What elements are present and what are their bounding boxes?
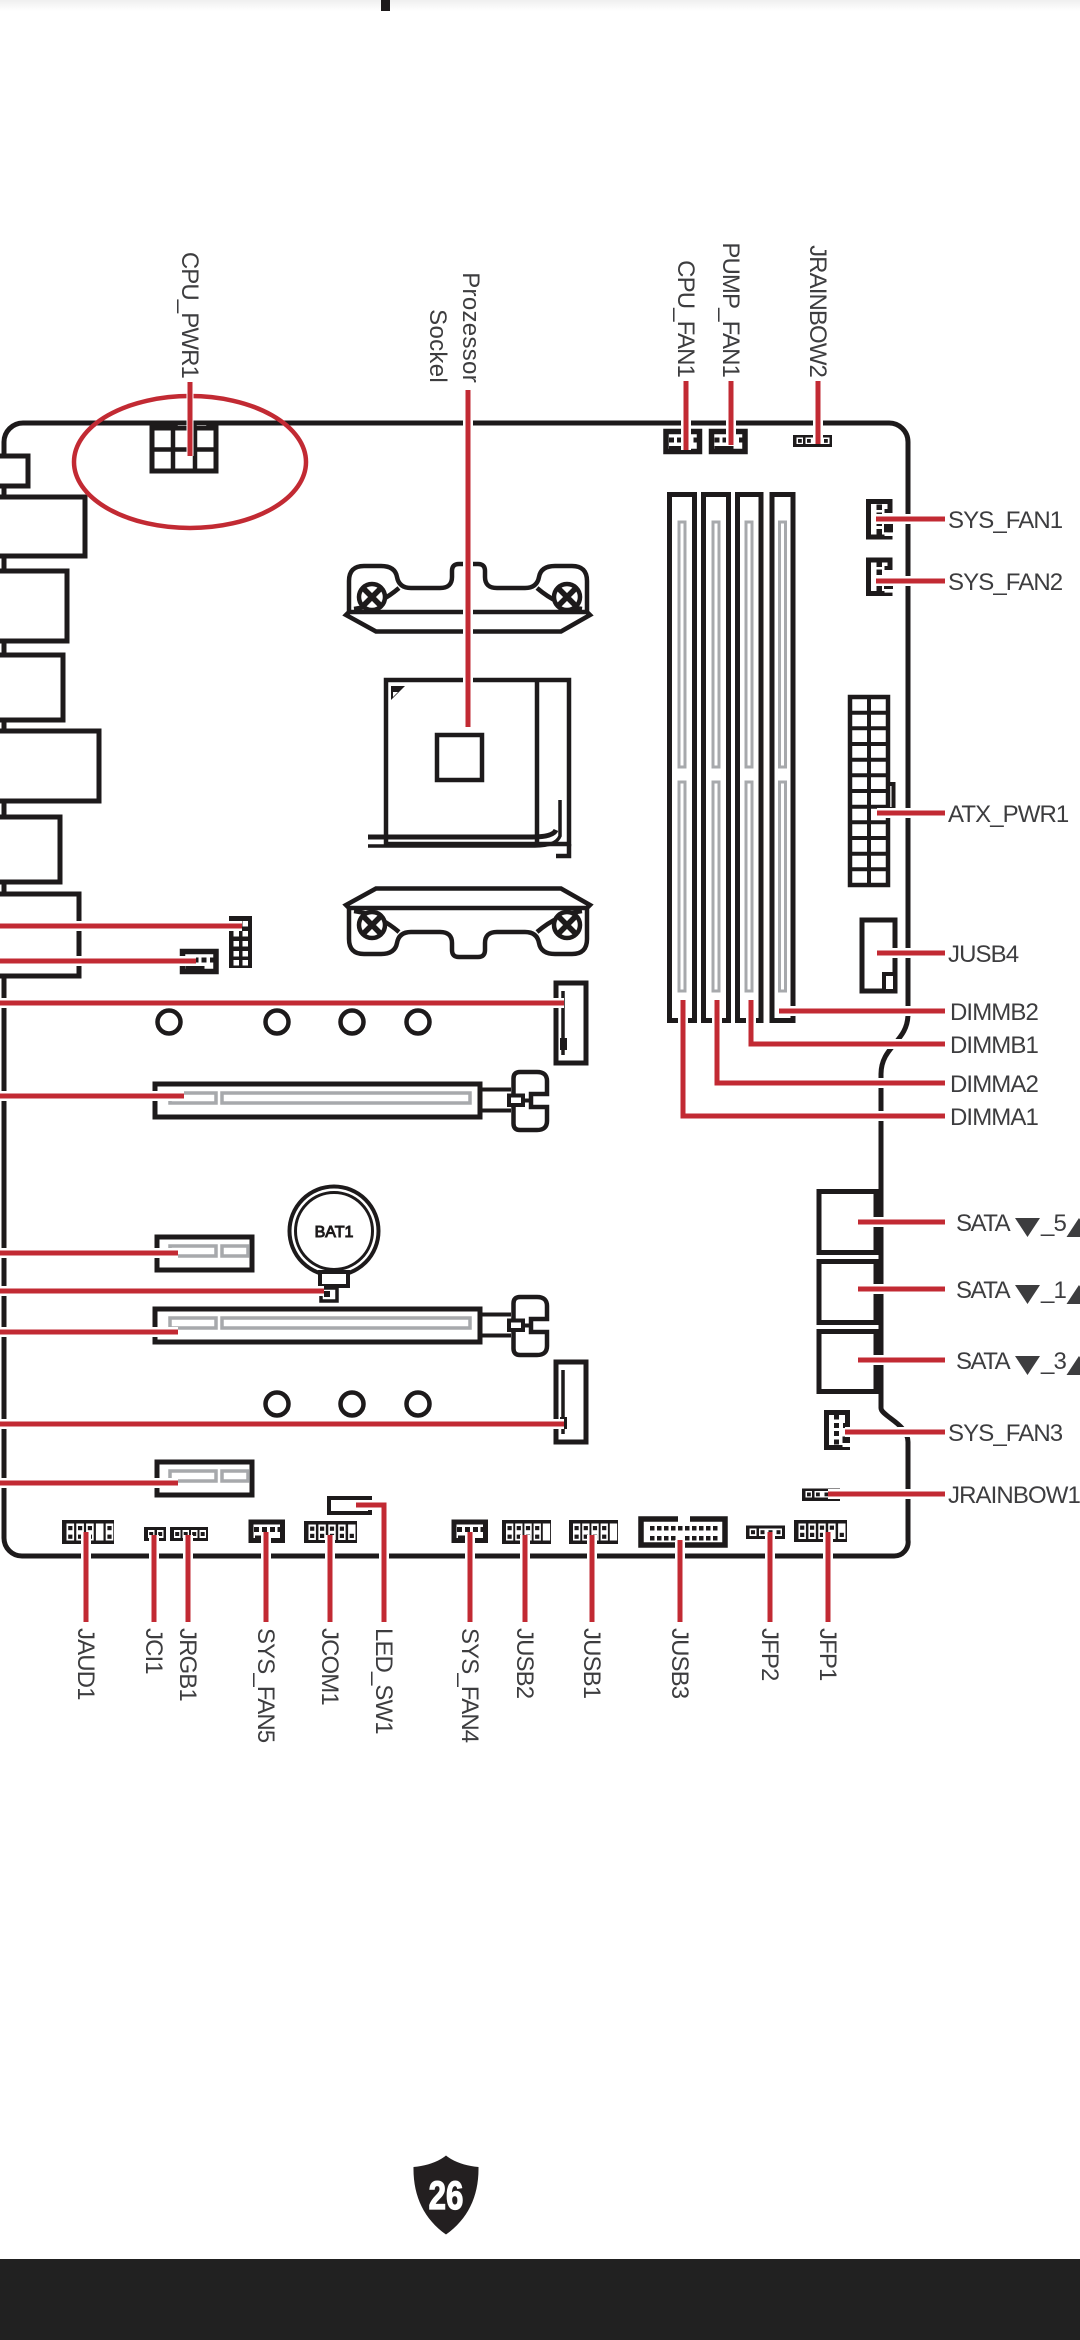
svg-text:Sockel: Sockel: [424, 309, 451, 383]
connector SYS_FAN5: [251, 1522, 283, 1541]
leader line JRAINBOW1: [828, 1492, 945, 1497]
header JFP2: [746, 1526, 785, 1540]
svg-text:JUSB3: JUSB3: [666, 1628, 693, 1699]
slot PCI_E1 x16: [155, 1072, 547, 1130]
svg-text:JRAINBOW2: JRAINBOW2: [804, 245, 831, 377]
svg-text:DIMMB1: DIMMB1: [950, 1032, 1038, 1059]
connector JRGB1: [170, 1527, 208, 1541]
svg-text:JCOM1: JCOM1: [316, 1628, 343, 1705]
leader line SYS_FAN4: [468, 1532, 473, 1622]
leader line JFP1: [826, 1532, 831, 1622]
header JCOM1: [304, 1521, 357, 1543]
leader line JAUD1: [84, 1532, 89, 1622]
slot PCI_E3 x16: [155, 1297, 547, 1355]
leader line SYS_FAN5: [264, 1532, 269, 1622]
leader line M2_1: [0, 1001, 564, 1006]
connector ATX_PWR1: [850, 697, 894, 885]
connector SYS_FAN1: [869, 502, 896, 538]
svg-text:ATX_PWR1: ATX_PWR1: [948, 801, 1069, 828]
svg-text:JFP2: JFP2: [756, 1628, 783, 1681]
svg-text:JUSB1: JUSB1: [578, 1628, 605, 1699]
leader line JUSB3: [678, 1540, 683, 1622]
leader line LED_SW1: [356, 1505, 384, 1622]
header JTPM1: [229, 916, 252, 968]
leader line Prozessor Sockel: [466, 390, 471, 727]
connector SYS_FAN3: [827, 1413, 853, 1448]
leader line CPU_PWR1: [188, 382, 193, 456]
header JUSB2: [502, 1520, 551, 1544]
leader line M2_2: [0, 1422, 564, 1427]
page number shield: [413, 2156, 478, 2235]
leader line SATA 5/6: [858, 1220, 945, 1225]
M.2 standoff holes row 1: [158, 1011, 430, 1034]
io port 6: [0, 817, 60, 882]
svg-text:CPU_FAN1: CPU_FAN1: [672, 260, 699, 377]
leader line white casings (underlay): [0, 381, 945, 1622]
svg-text:BAT1: BAT1: [315, 1224, 354, 1241]
svg-text:26: 26: [429, 2173, 464, 2218]
connector PUMP_FAN2: [183, 952, 217, 973]
latch PCI_E3: [480, 1297, 547, 1355]
svg-text:DIMMB2: DIMMB2: [950, 999, 1038, 1026]
DIMM slot DIMMA1: [670, 495, 695, 1021]
leader line DIMMB2: [779, 1009, 945, 1014]
jumper JBAT1: [321, 1288, 337, 1301]
svg-text:DIMMA2: DIMMA2: [950, 1071, 1038, 1098]
header JUSB3: [641, 1519, 725, 1545]
svg-text:JUSB4: JUSB4: [948, 941, 1019, 968]
DIMM slot DIMMA2: [704, 495, 729, 1021]
io port 7: [0, 894, 79, 976]
leader line DIMMA2: [717, 1000, 945, 1083]
DIMM inner keys: [679, 522, 786, 991]
leader line PCI_E2 x1: [0, 1251, 178, 1256]
screw top-right: [554, 584, 580, 610]
latch PCI_E1: [480, 1072, 547, 1130]
svg-text:JFP1: JFP1: [814, 1628, 841, 1681]
leader line PCI_E3: [0, 1330, 178, 1335]
svg-text:SATA: SATA: [956, 1348, 1011, 1375]
leader line PCI_E1: [0, 1094, 184, 1099]
bottom navigation bar: [0, 2259, 1080, 2340]
io port 5: [0, 731, 99, 801]
switch LED_SW1: [329, 1498, 370, 1513]
SATA port 5/6: [819, 1192, 876, 1253]
svg-text:SATA: SATA: [956, 1277, 1011, 1304]
SATA port 1/2: [819, 1262, 876, 1323]
slot PCI_E4 x1: [157, 1462, 252, 1495]
DIMM slot DIMMB2: [772, 495, 793, 1021]
leader line PCI_E4 x1: [0, 1481, 178, 1486]
connector SYS_FAN4: [454, 1522, 486, 1541]
screw top-left: [359, 584, 385, 610]
svg-text:_3: _3: [1040, 1348, 1066, 1375]
heatsink bracket top: [346, 564, 590, 632]
svg-text:CPU_PWR1: CPU_PWR1: [176, 252, 203, 379]
M.2 standoff holes row 2: [266, 1393, 430, 1416]
connector CPU_PWR1: [152, 425, 216, 471]
heading glyph fragment at top: [381, 0, 390, 11]
connector M2_1: [556, 983, 586, 1063]
header JUSB1: [569, 1520, 618, 1544]
leader line ATX_PWR1: [877, 811, 945, 816]
jumper JCI1: [144, 1527, 166, 1541]
slot PCI_E2 x1: [157, 1237, 252, 1270]
leader line SATA 3/4: [858, 1358, 945, 1363]
leader line JUSB4: [877, 951, 945, 956]
svg-text:JRAINBOW1: JRAINBOW1: [948, 1482, 1080, 1509]
socket bottom lip: [368, 830, 556, 837]
svg-text:DIMMA1: DIMMA1: [950, 1104, 1038, 1131]
io port 1: [0, 456, 28, 486]
io port 3: [0, 571, 67, 641]
svg-text:JAUD1: JAUD1: [72, 1628, 99, 1700]
top scroll shadow: [0, 0, 1080, 11]
io port 2: [0, 497, 85, 556]
connector PUMP_FAN1: [712, 432, 746, 453]
leader line JCOM1: [328, 1535, 333, 1622]
connector SYS_FAN2: [869, 560, 896, 594]
motherboard outline: [4, 423, 908, 1556]
connector JUSB4: [862, 920, 895, 991]
leader line PUMP_FAN1: [729, 381, 734, 445]
heatsink bracket bottom: [346, 889, 590, 958]
svg-text:SATA: SATA: [956, 1210, 1011, 1237]
svg-text:JUSB2: JUSB2: [511, 1628, 538, 1699]
battery BAT1: [290, 1187, 379, 1287]
svg-text:JRGB1: JRGB1: [174, 1628, 201, 1701]
connector CPU_FAN1: [666, 432, 700, 453]
header JFP1: [794, 1520, 847, 1542]
leader line SYS_FAN3: [845, 1430, 945, 1435]
SATA port 3/4: [819, 1332, 876, 1392]
connector JRAINBOW2: [793, 435, 832, 447]
screw bottom-left: [359, 912, 385, 938]
leader line JUSB2: [523, 1535, 528, 1622]
svg-text:SYS_FAN1: SYS_FAN1: [948, 507, 1063, 534]
leader line JRGB1: [186, 1535, 191, 1622]
svg-text:PUMP_FAN1: PUMP_FAN1: [717, 242, 744, 377]
connector JRAINBOW1: [802, 1489, 840, 1502]
red highlight ellipse around CPU_PWR1: [74, 396, 306, 528]
leader line SYS_FAN2: [876, 579, 945, 584]
svg-text:SYS_FAN3: SYS_FAN3: [948, 1420, 1063, 1447]
leader line JRAINBOW2: [816, 381, 821, 444]
leader line PUMP_FAN2: [0, 959, 196, 964]
leader line DIMMA1: [683, 1000, 945, 1116]
DIMM slot DIMMB1: [738, 495, 762, 1021]
screw bottom-right: [554, 912, 580, 938]
leader line DIMMB1: [751, 1000, 945, 1044]
leader line JTPM1: [0, 924, 242, 929]
svg-text:SYS_FAN4: SYS_FAN4: [456, 1628, 483, 1743]
leader line CPU_FAN1: [684, 381, 689, 450]
leader line JBAT1: [0, 1289, 324, 1294]
leader line JUSB1: [590, 1535, 595, 1622]
svg-text:LED_SW1: LED_SW1: [370, 1628, 397, 1734]
svg-text:_1: _1: [1040, 1277, 1066, 1304]
svg-text:Prozessor: Prozessor: [457, 272, 484, 383]
svg-text:JCI1: JCI1: [140, 1628, 167, 1674]
svg-text:_5: _5: [1040, 1210, 1066, 1237]
connector M2_2: [556, 1362, 586, 1442]
svg-text:SYS_FAN5: SYS_FAN5: [252, 1628, 279, 1743]
processor socket: [368, 680, 569, 856]
leader line JFP2: [768, 1532, 773, 1622]
leader line JCI1: [152, 1535, 157, 1622]
io port 4: [0, 655, 63, 720]
red leader lines: [0, 381, 945, 1622]
header JAUD1: [62, 1520, 114, 1544]
svg-text:SYS_FAN2: SYS_FAN2: [948, 569, 1063, 596]
leader line SYS_FAN1: [876, 517, 945, 522]
leader line SATA 1/2: [858, 1287, 945, 1292]
